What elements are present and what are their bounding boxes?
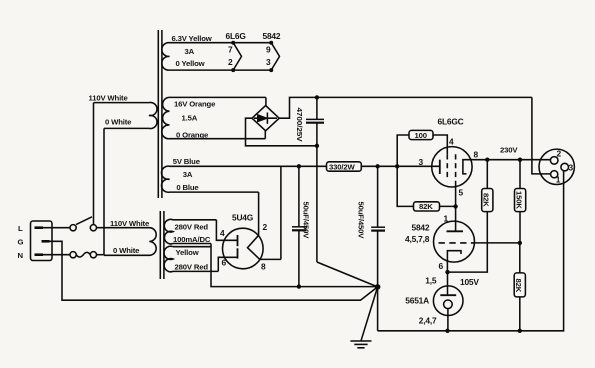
primary winding P2 110V White: [97, 228, 157, 256]
capacitor C2 50uF/450V: [292, 166, 307, 286]
resistor R2 100 screen: [397, 130, 447, 166]
svg-text:6.3V Yellow: 6.3V Yellow: [172, 34, 212, 43]
svg-text:5842: 5842: [263, 31, 281, 41]
svg-text:3A: 3A: [185, 47, 195, 56]
wire 230V output line: [471, 159, 550, 161]
secondary winding 280V lower lobe: [164, 246, 218, 272]
svg-text:82K: 82K: [514, 279, 523, 293]
svg-text:110V White: 110V White: [89, 93, 129, 102]
secondary winding 280V upper lobe: [164, 219, 216, 244]
svg-text:2: 2: [263, 222, 268, 232]
svg-text:100: 100: [415, 131, 427, 140]
svg-text:7: 7: [228, 45, 233, 55]
svg-text:2,4,7: 2,4,7: [419, 316, 437, 326]
svg-text:280V Red: 280V Red: [175, 222, 209, 231]
wire P1 0White drop to N row: [103, 128, 105, 254]
svg-text:1: 1: [444, 213, 449, 223]
reference tube V4 5651A: [433, 272, 463, 331]
transformer core T1 upper: [158, 30, 162, 198]
svg-text:Yellow: Yellow: [176, 248, 199, 257]
transformer core T1 lower: [160, 211, 164, 279]
svg-text:82K: 82K: [419, 202, 433, 211]
ground symbol: [350, 287, 377, 348]
wire cathode loop to 82K: [448, 212, 488, 273]
svg-text:3: 3: [569, 163, 574, 173]
wire L to switch: [43, 227, 70, 229]
svg-text:4700/25V: 4700/25V: [295, 108, 304, 143]
fuse F1 contact right: [90, 252, 96, 258]
secondary winding 16V Orange: [162, 97, 266, 138]
wire bridge plus to top rail: [279, 97, 532, 118]
svg-text:9: 9: [266, 45, 271, 55]
plug pin N: [35, 253, 44, 256]
wire 0 Orange to bridge bottom: [264, 131, 266, 139]
resistor R4 82K vertical: [482, 160, 493, 212]
plug pin G: [42, 240, 50, 243]
wire N to fuse: [43, 254, 70, 256]
switch S1 blade: [76, 217, 92, 225]
svg-text:6: 6: [222, 257, 227, 267]
svg-text:100mA/DC: 100mA/DC: [173, 235, 211, 244]
svg-text:3: 3: [419, 157, 424, 167]
resistor R5 150K: [515, 160, 526, 243]
svg-text:3: 3: [266, 57, 271, 67]
plug pin L: [35, 226, 44, 229]
svg-text:16V Orange: 16V Orange: [174, 99, 216, 108]
svg-text:5V Blue: 5V Blue: [173, 157, 201, 166]
svg-text:230V: 230V: [500, 145, 518, 154]
svg-text:5U4G: 5U4G: [232, 213, 253, 223]
svg-text:3A: 3A: [183, 170, 193, 179]
heater chevron 6L6G pins 7-2: [233, 43, 241, 70]
wire pin8 elbow 5U4G: [260, 258, 281, 260]
resistor R1 330/2W: [327, 162, 362, 171]
wire 280V bottom to 5U4G pin6: [218, 257, 237, 271]
svg-text:2: 2: [228, 57, 233, 67]
rectifier tube V1 5U4G: [223, 228, 264, 269]
wire fuse to windings junction: [97, 254, 105, 256]
svg-text:0 Blue: 0 Blue: [176, 183, 199, 192]
svg-text:1: 1: [556, 175, 561, 185]
svg-text:1.5A: 1.5A: [182, 114, 198, 123]
pass tube V2 6L6GC: [432, 147, 472, 187]
svg-text:8: 8: [261, 261, 266, 271]
wire 0 Blue to 5U4G pin2: [258, 192, 260, 235]
wire bridge minus to cap: [246, 118, 317, 146]
svg-text:50uF/450V: 50uF/450V: [357, 202, 366, 240]
wire Yellow center tap to star ground: [211, 244, 378, 287]
secondary winding 5V Blue: [162, 166, 327, 192]
wire DC16V rail down to connector pin1: [532, 97, 551, 173]
svg-text:2: 2: [557, 149, 562, 159]
star ground node: [377, 287, 379, 331]
svg-text:150K: 150K: [514, 191, 523, 209]
secondary winding 6.3V Yellow: [162, 43, 271, 71]
output connector J1: [539, 149, 574, 184]
svg-text:5651A: 5651A: [405, 296, 429, 306]
svg-text:6L6G: 6L6G: [226, 31, 246, 41]
primary winding P1 110V White: [94, 102, 157, 128]
svg-text:0 White: 0 White: [113, 246, 140, 255]
wire 6L6 pin5 to node: [455, 181, 457, 206]
switch S1 contact right: [90, 225, 96, 231]
svg-text:4: 4: [449, 136, 454, 146]
svg-text:50uF/450V: 50uF/450V: [302, 202, 311, 240]
wire B+ line 5V to 330 resistor: [280, 166, 282, 259]
svg-text:1,5: 1,5: [425, 276, 437, 286]
fuse F1 wavy element: [76, 252, 90, 257]
svg-text:0 White: 0 White: [105, 118, 132, 127]
wire 16V top to bridge: [265, 97, 267, 105]
wire 5842 grid to divider: [474, 242, 519, 244]
svg-text:82K: 82K: [482, 193, 491, 207]
resistor R3 82K grid feed: [397, 166, 455, 211]
svg-text:280V Red: 280V Red: [175, 262, 209, 271]
svg-text:G: G: [18, 238, 24, 247]
svg-text:8: 8: [474, 150, 479, 160]
svg-text:110V White: 110V White: [110, 219, 150, 228]
svg-text:5: 5: [459, 187, 464, 197]
mains inlet plug: [31, 221, 53, 261]
svg-text:105V: 105V: [460, 277, 479, 287]
svg-text:330/2W: 330/2W: [329, 162, 355, 171]
wire 280V top to 5U4G pin4: [216, 220, 237, 241]
svg-text:L: L: [18, 224, 23, 233]
svg-text:0 Yellow: 0 Yellow: [176, 59, 205, 68]
svg-text:6: 6: [439, 261, 444, 271]
fuse F1 contact left: [70, 252, 76, 258]
svg-text:4: 4: [220, 228, 225, 238]
wire C1 minus to star ground: [317, 262, 378, 287]
capacitor C1 4700/25V: [306, 97, 324, 262]
wire G earth run: [50, 241, 378, 300]
svg-text:4,5,7,8: 4,5,7,8: [405, 234, 430, 244]
capacitor C3 50uF/450V: [371, 166, 385, 287]
error amp V3 5842: [434, 206, 475, 272]
bridge rectifier BR1: [252, 106, 279, 131]
heater chevron 5842 pins 9-3: [271, 43, 279, 70]
svg-text:N: N: [18, 251, 24, 260]
wire ground bus bottom: [378, 171, 564, 331]
svg-text:6L6GC: 6L6GC: [438, 117, 464, 127]
wire P1 110V drop to switch: [93, 103, 95, 225]
svg-text:5842: 5842: [412, 222, 430, 232]
switch S1 contact left: [70, 225, 76, 231]
resistor R6 82K lower: [514, 243, 525, 331]
svg-text:0 Orange: 0 Orange: [176, 131, 209, 140]
wire B+ after R1 to 6L6 plate: [361, 165, 440, 167]
